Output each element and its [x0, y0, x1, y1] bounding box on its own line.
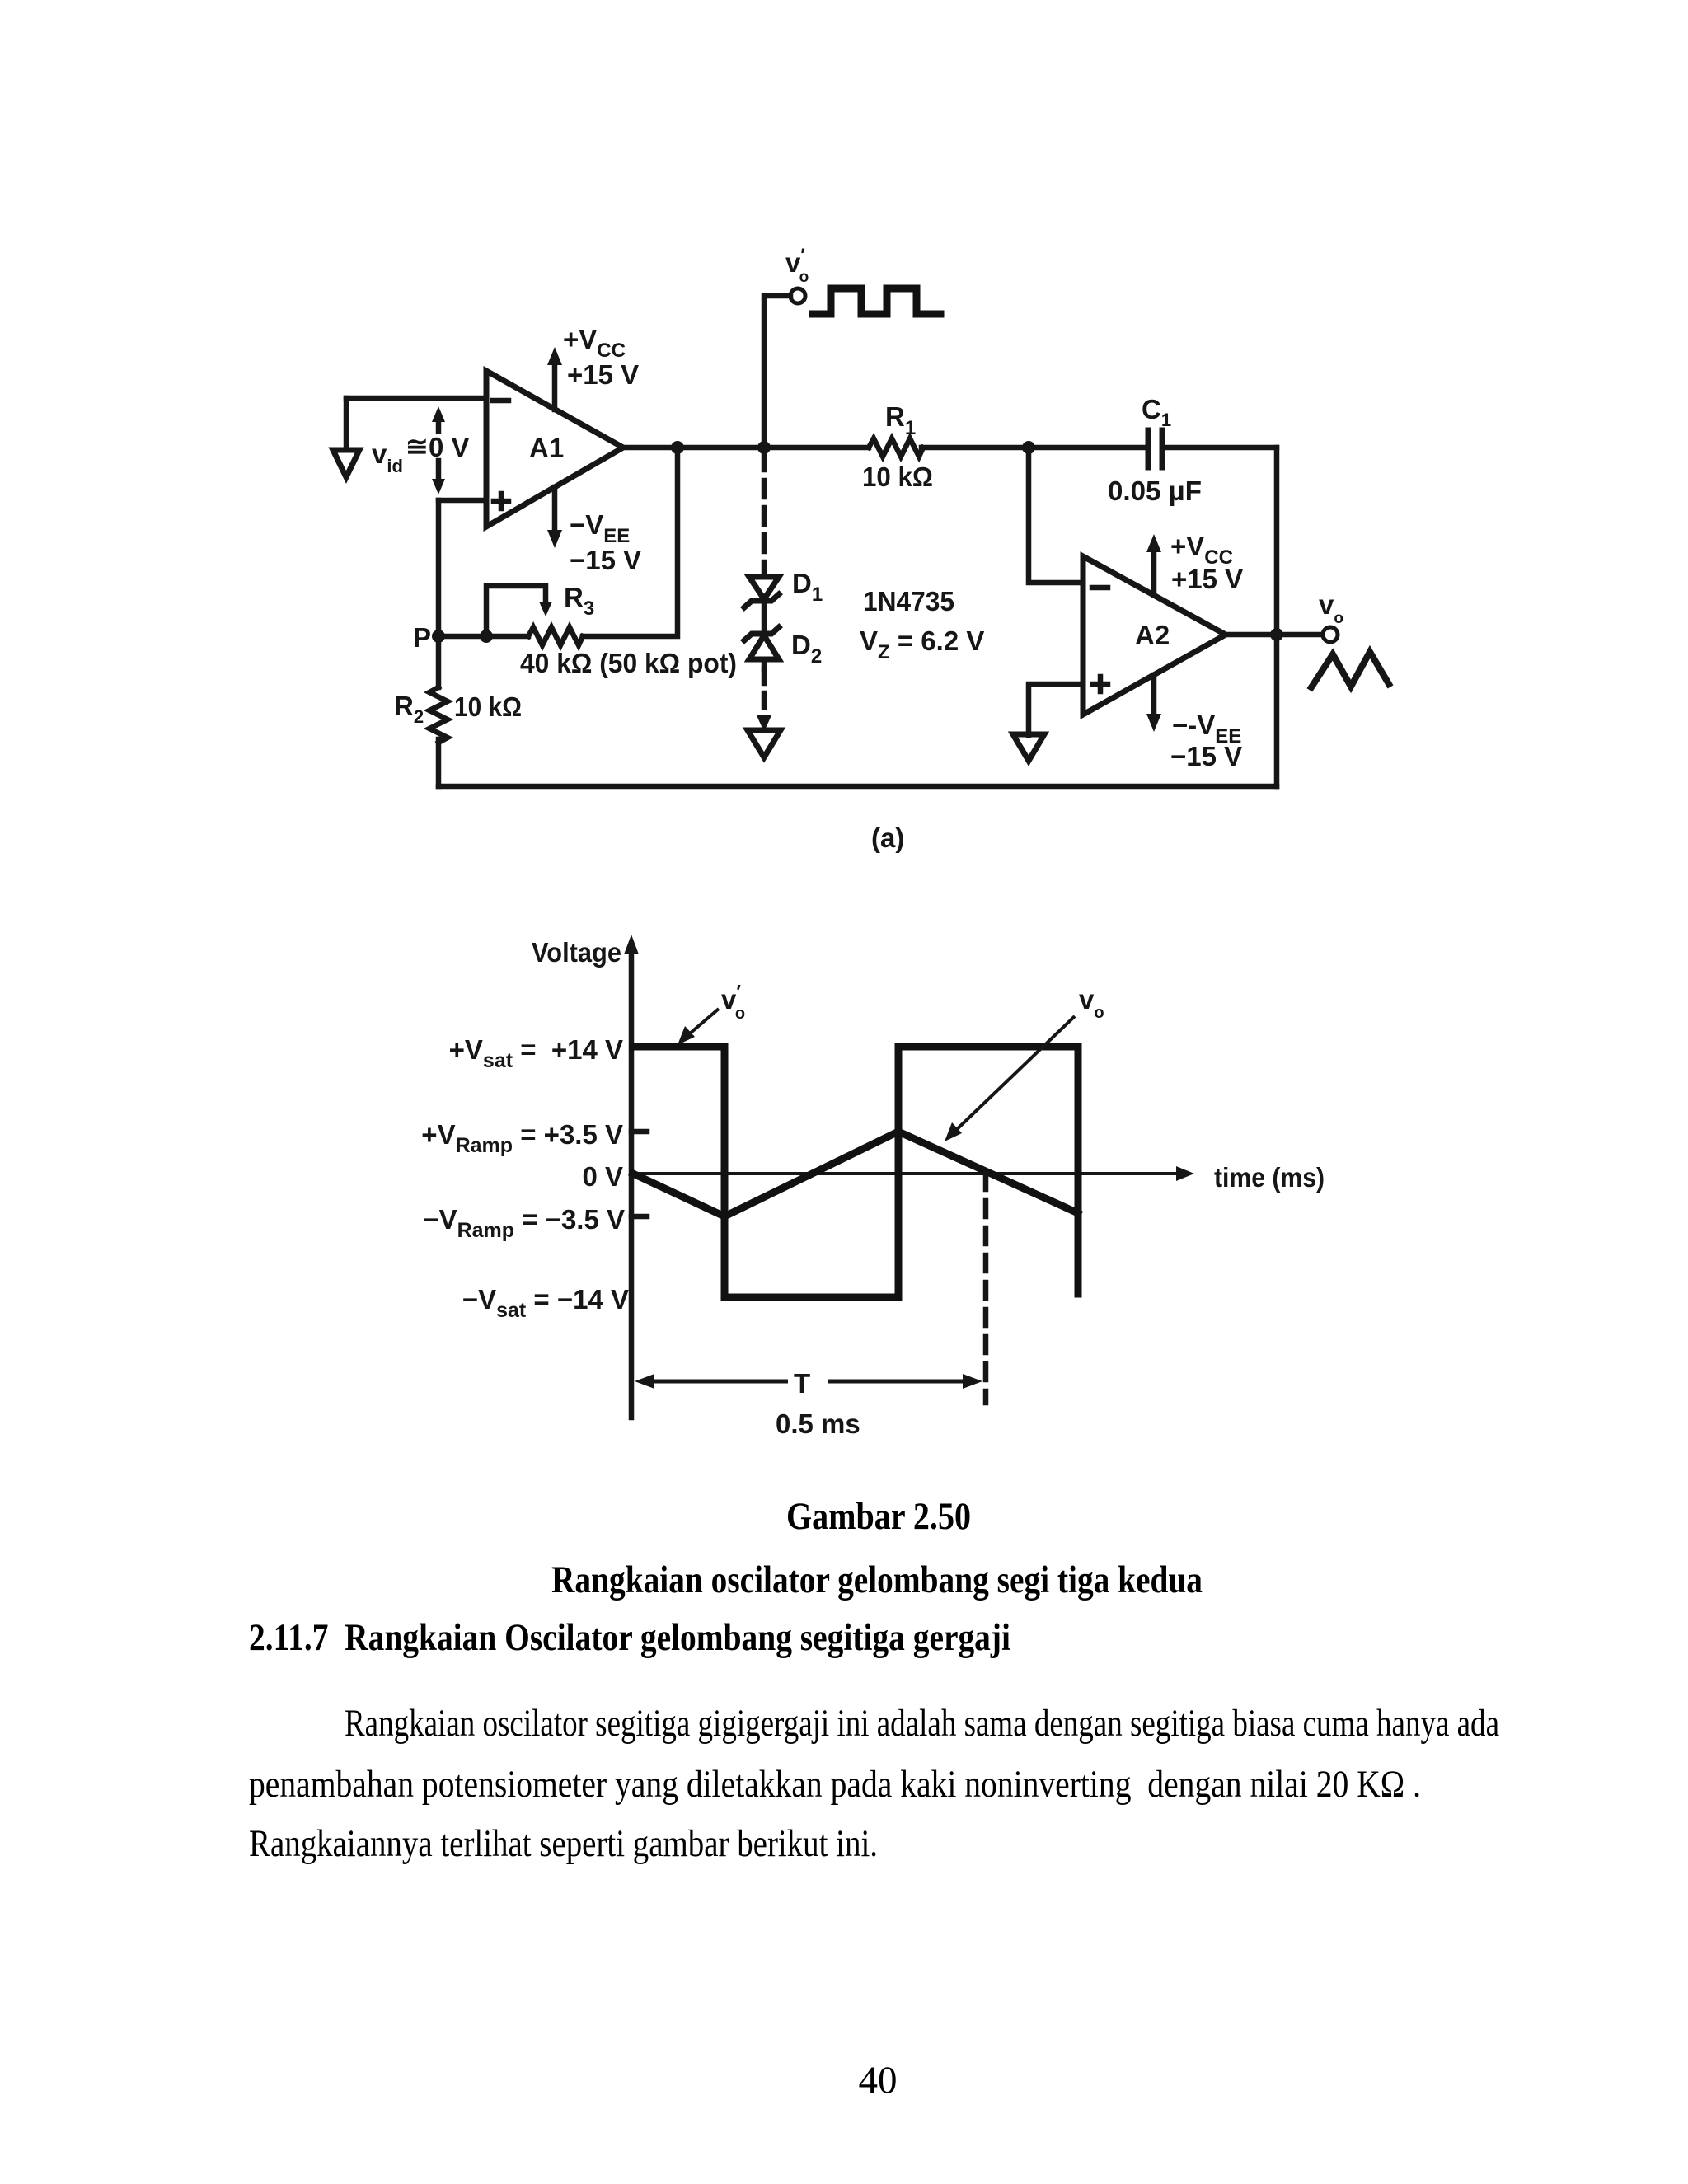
svg-text:C1: C1 — [1142, 394, 1171, 430]
svg-text:vo: vo — [1079, 984, 1104, 1022]
svg-text:Rangkaiannya terlihat seperti: Rangkaiannya terlihat seperti gambar ber… — [249, 1822, 878, 1865]
svg-text:(a): (a) — [871, 823, 904, 853]
svg-text:VZ = 6.2 V: VZ = 6.2 V — [860, 626, 984, 663]
svg-text:D1: D1 — [792, 568, 823, 606]
svg-text:v′o: v′o — [785, 245, 809, 286]
svg-text:+15 V: +15 V — [1171, 564, 1243, 594]
svg-text:A2: A2 — [1135, 620, 1170, 650]
svg-text:P: P — [413, 622, 431, 653]
svg-text:R1: R1 — [885, 401, 916, 439]
svg-text:40: 40 — [859, 2059, 898, 2102]
svg-text:R3: R3 — [564, 582, 594, 620]
svg-text:−15 V: −15 V — [1170, 741, 1242, 771]
svg-text:D2: D2 — [791, 630, 822, 668]
svg-text:R2: R2 — [394, 691, 424, 727]
svg-text:0.5 ms: 0.5 ms — [776, 1408, 860, 1439]
svg-text:0 V: 0 V — [429, 432, 470, 462]
svg-text:+Vsat = +14 V: +Vsat = +14 V — [449, 1034, 623, 1072]
svg-text:1N4735: 1N4735 — [863, 586, 954, 616]
svg-text:0 V: 0 V — [582, 1161, 623, 1192]
svg-text:A1: A1 — [529, 433, 564, 463]
svg-text:Rangkaian oscilator gelombang: Rangkaian oscilator gelombang segi tiga … — [551, 1558, 1203, 1601]
svg-text:vid: vid — [372, 438, 403, 476]
svg-text:+VCC: +VCC — [563, 324, 626, 362]
svg-text:10 kΩ: 10 kΩ — [454, 691, 522, 722]
svg-text:−Vsat = −14 V: −Vsat = −14 V — [462, 1284, 629, 1322]
svg-text:0.05 μF: 0.05 μF — [1108, 476, 1202, 506]
svg-text:Voltage: Voltage — [532, 937, 621, 968]
svg-text:Rangkaian oscilator segitiga g: Rangkaian oscilator segitiga gigigergaji… — [345, 1702, 1499, 1745]
svg-text:10 kΩ: 10 kΩ — [862, 462, 933, 492]
svg-text:Gambar 2.50: Gambar 2.50 — [786, 1495, 971, 1538]
svg-text:+15 V: +15 V — [567, 359, 639, 390]
svg-text:2.11.7 Rangkaian Oscilator ge: 2.11.7 Rangkaian Oscilator gelombang seg… — [249, 1616, 1010, 1659]
svg-text:T: T — [794, 1368, 810, 1399]
svg-text:+VRamp = +3.5 V: +VRamp = +3.5 V — [421, 1119, 623, 1157]
svg-text:time (ms): time (ms) — [1214, 1162, 1325, 1193]
svg-text:≅: ≅ — [406, 431, 429, 462]
svg-text:penambahan potensiometer yang: penambahan potensiometer yang diletakkan… — [249, 1763, 1421, 1806]
svg-text:vo: vo — [1319, 589, 1343, 627]
svg-text:−VRamp = −3.5 V: −VRamp = −3.5 V — [423, 1204, 625, 1242]
svg-text:v′o: v′o — [721, 981, 745, 1023]
svg-text:−VEE: −VEE — [570, 509, 630, 547]
svg-text:−15 V: −15 V — [570, 545, 641, 575]
svg-text:40 kΩ (50 kΩ pot): 40 kΩ (50 kΩ pot) — [520, 648, 737, 678]
